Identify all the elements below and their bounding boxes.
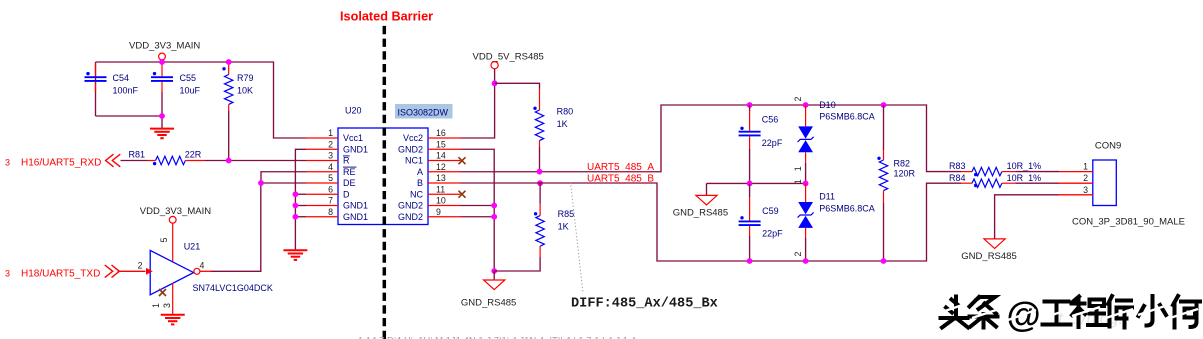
ground (earth) under U20 left	[283, 250, 307, 260]
svg-text:R: R	[343, 156, 350, 166]
svg-text:GND_RS485: GND_RS485	[461, 298, 516, 309]
node R79/RXD junction	[226, 158, 232, 164]
svg-text:CON9: CON9	[1095, 141, 1121, 152]
svg-text:1K: 1K	[557, 119, 568, 129]
watermark white streaks	[942, 303, 1198, 320]
svg-text:120R: 120R	[894, 169, 916, 179]
wire bottom rail C54-C55	[96, 115, 163, 117]
小	[1139, 296, 1167, 326]
no-connect X pin 11	[459, 191, 466, 198]
何	[1173, 296, 1200, 328]
工	[1043, 302, 1071, 325]
svg-text:A: A	[417, 167, 423, 177]
svg-text:NC1: NC1	[405, 156, 423, 166]
connector CON9	[1059, 141, 1185, 228]
resistor R83 10R_1%	[949, 161, 1041, 176]
wire VDD branch to R80	[495, 83, 540, 88]
U20 left pin names	[343, 133, 368, 222]
svg-text:5: 5	[159, 238, 169, 243]
node junction RE/DE	[258, 180, 264, 186]
头	[941, 297, 969, 328]
svg-text:GND_RS485: GND_RS485	[961, 251, 1016, 262]
svg-text:10K: 10K	[237, 86, 253, 96]
U20 right pin stubs	[428, 138, 461, 217]
svg-text:P6SMB6.8CA: P6SMB6.8CA	[819, 112, 875, 122]
svg-text:VDD_5V_RS485: VDD_5V_RS485	[473, 52, 544, 63]
svg-text:8: 8	[328, 207, 333, 217]
svg-text:4: 4	[328, 162, 333, 172]
node junction R80 bottom on A	[537, 169, 543, 175]
wire RXD connector to R81	[121, 160, 148, 162]
barrier dashed line	[383, 26, 387, 339]
svg-text:5: 5	[328, 173, 333, 183]
node junction C55 bottom / ground	[159, 113, 165, 119]
svg-text:1: 1	[793, 179, 803, 184]
svg-text:R79: R79	[237, 73, 254, 83]
wire U20 pin7 GND1 to ground vertical	[295, 205, 306, 207]
svg-text:R83: R83	[949, 161, 966, 171]
svg-text:DIFF:485_Ax/485_Bx: DIFF:485_Ax/485_Bx	[571, 297, 718, 312]
svg-text:6: 6	[328, 184, 333, 194]
svg-text:C55: C55	[180, 73, 197, 83]
svg-text:2: 2	[328, 139, 333, 149]
svg-text:22pF: 22pF	[762, 228, 783, 238]
wire VDD 3V3 top rail	[96, 62, 307, 138]
svg-text:11: 11	[436, 184, 445, 194]
wire U20 pin6 D to ground vertical	[295, 193, 306, 195]
svg-text:2: 2	[1083, 173, 1088, 183]
svg-text:P6SMB6.8CA: P6SMB6.8CA	[819, 204, 875, 214]
watermark 头条 @工程师小何	[941, 297, 998, 328]
resistor R84 10R_1%	[949, 173, 1041, 188]
wire U20 pin8 GND1 to ground vertical	[295, 216, 306, 218]
svg-text:1.14.7 Di4 Hi. 1Hi M 1J1 4N 1: 1.14.7 Di4 Hi. 1Hi M 1J1 4N 1 J 7|1i 4 J…	[358, 336, 636, 339]
capacitor C56	[739, 102, 783, 186]
svg-text:D10: D10	[819, 100, 836, 110]
svg-text:H18/UART5_TXD: H18/UART5_TXD	[21, 268, 100, 279]
svg-text:GND1: GND1	[343, 212, 368, 222]
svg-text:2: 2	[793, 97, 803, 102]
wire U20 pin4 RE	[261, 172, 306, 183]
svg-text:2: 2	[138, 260, 143, 270]
U20 right pin names	[398, 133, 424, 222]
svg-text:2: 2	[793, 252, 803, 257]
dotted leader line	[571, 182, 584, 293]
wire R83 to CON9 pin1	[1015, 171, 1059, 173]
svg-text:CON_3P_3D81_90_MALE: CON_3P_3D81_90_MALE	[1072, 217, 1185, 228]
wire GND2 pin9	[461, 216, 495, 218]
svg-text:9: 9	[436, 207, 441, 217]
node junction pin7	[293, 203, 299, 209]
svg-text:ISO3082DW: ISO3082DW	[398, 108, 449, 118]
wire U21 output to RE/DE	[210, 183, 261, 271]
node junction pin9	[491, 214, 497, 220]
svg-text:R84: R84	[949, 173, 966, 183]
svg-text:GND1: GND1	[343, 201, 368, 211]
svg-text:RE: RE	[343, 167, 356, 177]
svg-text:D: D	[343, 189, 350, 199]
svg-text:C59: C59	[762, 206, 779, 216]
svg-text:4: 4	[200, 260, 205, 270]
ground GND_RS485 (mid)	[673, 183, 728, 218]
svg-text:Vcc1: Vcc1	[343, 133, 363, 143]
svg-text:3: 3	[5, 268, 10, 278]
svg-text:13: 13	[436, 173, 446, 183]
wire C54 branch left vertical	[95, 62, 97, 116]
wire UART5_485_A	[461, 105, 962, 172]
off-page connector H18/UART5_TXD	[5, 265, 119, 279]
U20 right pin numbers	[436, 128, 446, 217]
svg-text:R82: R82	[894, 159, 911, 169]
node junction pin6	[293, 191, 299, 197]
ground GND_RS485 (below U20)	[461, 268, 516, 308]
wire GND2 pin15 vertical to GND_RS485	[461, 149, 495, 271]
svg-text:100nF: 100nF	[113, 86, 139, 96]
svg-text:15: 15	[436, 139, 446, 149]
svg-text:10R_1%: 10R_1%	[1007, 173, 1042, 183]
wire GND2 pin10	[461, 205, 495, 207]
svg-text:10uF: 10uF	[180, 86, 201, 96]
node junction pin8	[293, 214, 299, 220]
wire UART5_485_B	[461, 183, 962, 261]
resistor R80 1K	[533, 88, 573, 172]
svg-text:UART5_485_A: UART5_485_A	[587, 162, 654, 173]
wire GND mid rail	[707, 182, 806, 184]
svg-text:R80: R80	[557, 107, 574, 117]
power symbol VDD_3V3_MAIN (left)	[129, 41, 200, 63]
svg-text:12: 12	[436, 162, 446, 172]
wire R81 to U20 pin3 R	[205, 160, 306, 162]
svg-text:3: 3	[1083, 185, 1088, 195]
svg-text:3: 3	[162, 303, 172, 308]
wire U20 pin2 GND branch	[295, 149, 306, 250]
svg-text:D11: D11	[819, 192, 835, 202]
svg-text:10R_1%: 10R_1%	[1007, 161, 1042, 171]
svg-text:16: 16	[436, 128, 446, 138]
师	[1108, 296, 1132, 328]
svg-text:GND_RS485: GND_RS485	[673, 208, 728, 219]
capacitor C54	[85, 63, 139, 96]
条	[970, 297, 998, 328]
svg-text:GND2: GND2	[398, 212, 423, 222]
svg-text:GND2: GND2	[398, 201, 423, 211]
svg-text:U21: U21	[184, 241, 201, 251]
svg-text:1: 1	[328, 128, 333, 138]
node junction R79 top on VDD rail	[226, 59, 232, 65]
svg-text:3: 3	[5, 158, 10, 168]
svg-text:1: 1	[1083, 162, 1088, 172]
svg-text:14: 14	[436, 151, 446, 161]
resistor R85 1K	[494, 180, 574, 271]
power symbol VDD_5V_RS485	[473, 52, 544, 84]
inverter U21	[118, 238, 273, 315]
wire U20 pin5 DE	[261, 182, 306, 184]
svg-text:R85: R85	[558, 209, 575, 219]
svg-text:1: 1	[793, 166, 803, 171]
power symbol VDD_3V3_MAIN (U21)	[140, 206, 211, 264]
ground (earth) under C55	[150, 116, 174, 138]
svg-text:C56: C56	[762, 115, 779, 125]
svg-text:22R: 22R	[185, 150, 202, 160]
svg-text:UART5_485_B: UART5_485_B	[587, 174, 654, 185]
wire VDD 5V to Vcc2 pin16	[461, 83, 495, 138]
svg-text:R81: R81	[129, 150, 146, 160]
resistor R79	[222, 62, 253, 161]
svg-text:7: 7	[328, 196, 333, 206]
TVS diode D10 P6SMB6.8CA	[793, 97, 875, 187]
svg-text:GND1: GND1	[343, 144, 368, 154]
svg-text:22pF: 22pF	[762, 138, 783, 148]
svg-text:DE: DE	[343, 178, 356, 188]
svg-text:NC: NC	[410, 189, 423, 199]
wire CON9 pin3 to ground	[995, 195, 1059, 239]
svg-text:VDD_3V3_MAIN: VDD_3V3_MAIN	[129, 41, 200, 52]
svg-text:Isolated Barrier: Isolated Barrier	[340, 10, 433, 24]
svg-text:1K: 1K	[558, 222, 569, 232]
svg-text:Vcc2: Vcc2	[403, 133, 423, 143]
svg-text:1: 1	[151, 303, 161, 308]
svg-text:GND2: GND2	[398, 144, 423, 154]
程	[1072, 297, 1106, 328]
U20 left pin stubs	[306, 138, 338, 217]
svg-text:10: 10	[436, 196, 446, 206]
capacitor C55	[151, 63, 201, 116]
ground GND_RS485 (connector)	[961, 239, 1016, 262]
IC U20 ISO3082DW body	[338, 104, 453, 225]
svg-text:H16/UART5_RXD: H16/UART5_RXD	[21, 158, 101, 169]
resistor R81 22R	[129, 150, 206, 166]
node junction C55 top on VDD rail	[159, 59, 165, 65]
ground (earth) under U21	[161, 315, 185, 325]
svg-text:VDD_3V3_MAIN: VDD_3V3_MAIN	[140, 206, 211, 217]
svg-text:B: B	[417, 178, 423, 188]
node junction pin10	[491, 203, 497, 209]
TVS diode D11 P6SMB6.8CA	[793, 179, 875, 264]
U20 left pin numbers 1-8	[328, 128, 333, 217]
svg-text:C54: C54	[113, 73, 130, 83]
svg-text:3: 3	[328, 151, 333, 161]
resistor R82 120R	[877, 102, 915, 264]
capacitor C59	[739, 183, 784, 264]
svg-text:U20: U20	[345, 106, 362, 116]
svg-text:SN74LVC1G04DCK: SN74LVC1G04DCK	[193, 283, 273, 293]
wire R84 to CON9 pin2	[1015, 182, 1059, 184]
no-connect X pin 14	[459, 157, 466, 164]
off-page connector H16/UART5_RXD	[5, 154, 120, 168]
